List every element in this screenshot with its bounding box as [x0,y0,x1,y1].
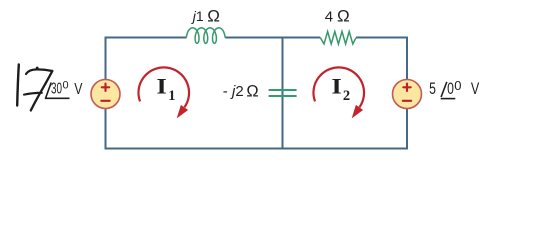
svg-text:30: 30 [51,81,62,98]
svg-text:0: 0 [63,80,69,92]
svg-text:- j2: - j2 [223,83,244,100]
svg-text:Ω: Ω [207,6,220,25]
svg-text:2: 2 [343,88,350,104]
svg-text:V: V [74,81,82,98]
svg-text:4: 4 [325,8,333,25]
svg-text:Ω: Ω [246,82,258,100]
svg-text:0: 0 [447,80,454,98]
svg-text:I: I [156,74,166,98]
svg-text:Ω: Ω [337,7,350,26]
svg-text:I: I [331,74,341,98]
svg-text:5: 5 [429,80,436,98]
svg-text:1: 1 [168,88,175,104]
svg-text:V: V [471,80,479,98]
svg-text:0: 0 [454,78,461,93]
svg-text:j1: j1 [191,8,204,24]
